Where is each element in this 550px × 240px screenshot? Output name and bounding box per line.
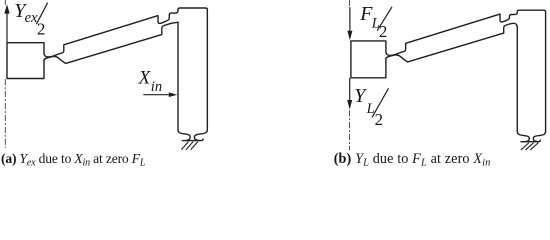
column B left edge + bottom-left flexure into ground stem xyxy=(517,27,529,142)
label Yex/2 xyxy=(14,0,45,39)
svg-text:Y: Y xyxy=(354,85,367,107)
svg-text:(b) YL due to FL at zero Xin: (b) YL due to FL at zero Xin xyxy=(334,151,491,169)
svg-text:X: X xyxy=(138,67,152,88)
block B (input slider square) xyxy=(351,41,386,78)
arrow Yex/2 (up arrow at block A) xyxy=(6,13,8,42)
label FL/2 xyxy=(359,3,387,41)
flexure hinge B1 upper + beam B upper edge + flexure B2 upper + column B top/right xyxy=(386,10,546,131)
flexure hinge B1 lower + beam B lower edge + flexure B2 lower xyxy=(386,23,517,62)
svg-text:2: 2 xyxy=(37,20,46,39)
block A (input slider square) xyxy=(7,43,44,79)
ground line B xyxy=(521,140,540,142)
svg-text:2: 2 xyxy=(375,110,384,129)
fraction slash FL/2 xyxy=(377,7,392,31)
flexure hinge A1 lower + beam A lower edge + flexure A2 lower xyxy=(44,22,178,63)
label YL/2 xyxy=(354,85,383,129)
caption (a) xyxy=(1,151,146,169)
fraction slash YL/2 xyxy=(372,88,388,117)
arrow YL/2 (down arrow below block B) xyxy=(349,78,351,100)
svg-text:in: in xyxy=(151,79,162,95)
arrowhead YL down xyxy=(347,100,352,110)
arrow FL/2 (down arrow into block B) xyxy=(349,8,351,32)
svg-text:(a) Yex due to Xin at zero FL: (a) Yex due to Xin at zero FL xyxy=(1,151,146,169)
flexure hinge A1 upper + beam A upper edge + flexure A2 upper + column A top/right xyxy=(44,8,207,129)
column B bottom-right flexure into ground stem xyxy=(533,131,545,141)
column A bottom-right flexure into ground stem xyxy=(194,130,207,141)
centerline B (dash-dot vertical) xyxy=(349,0,351,150)
caption (b) xyxy=(334,151,491,169)
arrowhead Yex up xyxy=(4,4,9,13)
arrowhead Xin right xyxy=(169,92,178,97)
arrow Xin (right arrow at column A) xyxy=(144,94,170,96)
arrowhead FL down xyxy=(347,31,352,41)
ground hatching A xyxy=(182,142,198,150)
label Xin xyxy=(138,67,162,95)
fraction slash Yex/2 xyxy=(36,3,47,25)
centerline A (dash-dot vertical) xyxy=(4,0,6,148)
ground line A xyxy=(182,139,203,141)
ground hatching B xyxy=(521,143,538,150)
column A left edge + bottom-left flexure into ground stem xyxy=(178,22,190,140)
